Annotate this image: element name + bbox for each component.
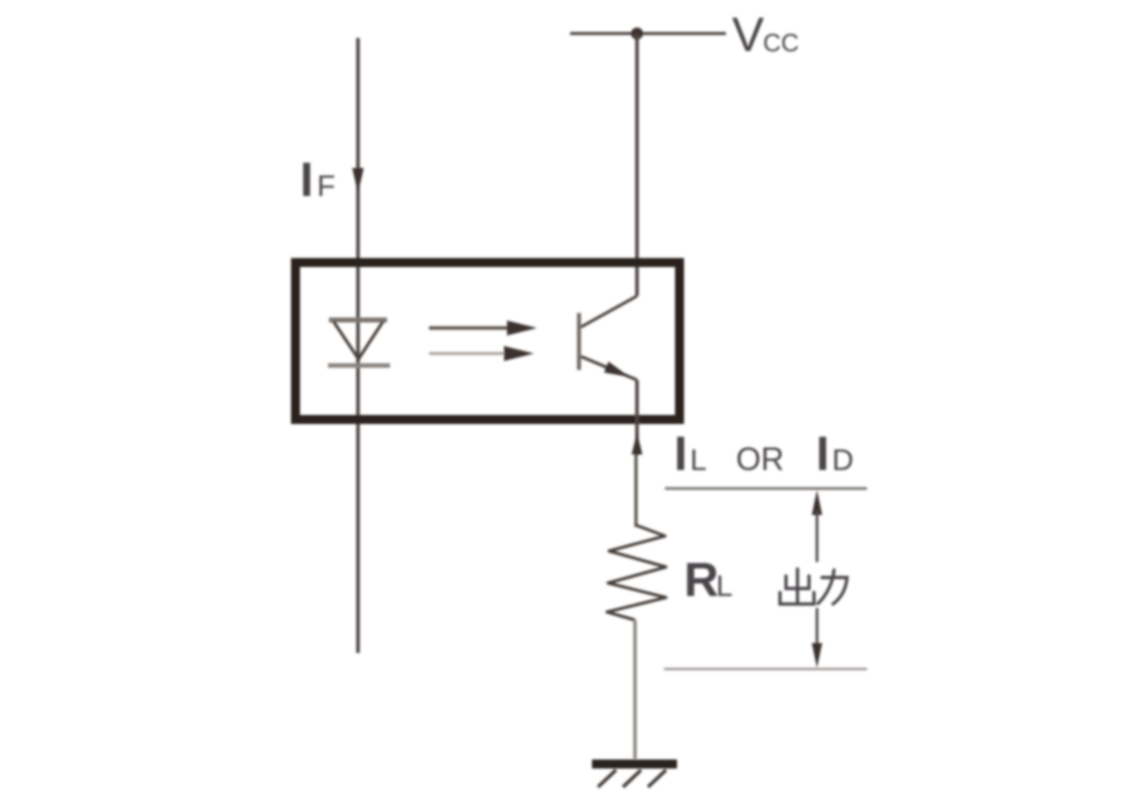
- wire collector to Vcc vertical: [635, 34, 639, 297]
- ground hatch 3: [648, 770, 666, 787]
- label VCC: [732, 9, 799, 62]
- label RL: [684, 554, 733, 607]
- label IL OR ID: [674, 428, 854, 481]
- svg-text:I: I: [816, 428, 829, 481]
- light arrow upper: [429, 321, 537, 336]
- phototransistor Q1 emitter arrow: [604, 362, 630, 378]
- svg-text:R: R: [684, 554, 719, 607]
- wire LED input line (left vertical, through diode): [356, 38, 360, 653]
- phototransistor Q1 base bar: [577, 313, 581, 370]
- phototransistor Q1 emitter lead: [581, 357, 637, 381]
- wire Vcc rail horizontal: [570, 32, 726, 35]
- phototransistor Q1 collector lead: [581, 296, 637, 327]
- optocoupler package U1 box: [296, 263, 680, 420]
- ground hatch 2: [623, 770, 641, 787]
- output upper reference line: [665, 487, 867, 490]
- light arrow lower: [429, 346, 534, 361]
- resistor RL zigzag: [607, 525, 666, 620]
- svg-text:OR: OR: [736, 441, 784, 477]
- svg-text:I: I: [674, 428, 687, 481]
- svg-text:I: I: [300, 154, 313, 207]
- svg-text:CC: CC: [763, 30, 799, 58]
- svg-text:D: D: [832, 444, 854, 477]
- svg-text:F: F: [317, 170, 335, 203]
- label IF current: [300, 154, 335, 207]
- current arrow IF (down, on left wire): [352, 168, 364, 193]
- svg-text:L: L: [716, 570, 733, 603]
- wire resistor to ground: [633, 620, 636, 759]
- dimension line upper segment with up arrow: [812, 490, 822, 562]
- wire emitter down through box: [635, 380, 639, 455]
- ground GND bar: [592, 760, 677, 769]
- LED D1 cathode bar: [328, 363, 390, 368]
- label 出力 (output): [780, 569, 847, 604]
- ground hatch 1: [598, 770, 616, 787]
- dimension line lower segment with down arrow: [812, 608, 822, 668]
- output lower reference line: [664, 668, 867, 670]
- node Vcc junction dot: [631, 28, 643, 40]
- svg-text:V: V: [732, 9, 764, 62]
- current arrow IL/ID (up, on emitter wire): [632, 433, 643, 455]
- LED D1 anode bar (triangle base): [329, 318, 387, 323]
- svg-text:L: L: [690, 444, 707, 477]
- wire emitter to resistor: [634, 455, 637, 527]
- LED D1 triangle: [334, 322, 384, 360]
